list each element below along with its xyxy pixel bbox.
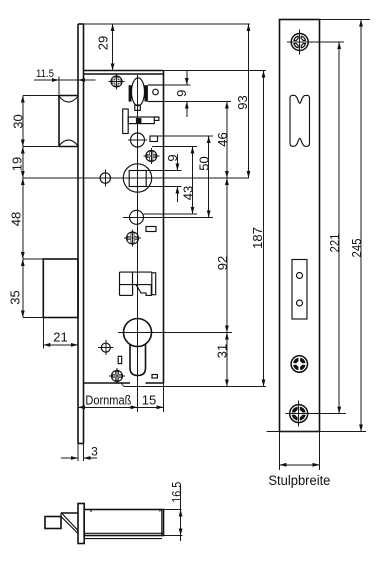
svg-text:48: 48 bbox=[9, 212, 24, 226]
svg-text:15: 15 bbox=[142, 393, 156, 408]
svg-text:50: 50 bbox=[197, 156, 212, 170]
svg-text:11.5: 11.5 bbox=[36, 68, 54, 80]
svg-text:Stulpbreite: Stulpbreite bbox=[268, 473, 330, 488]
svg-text:187: 187 bbox=[250, 227, 265, 249]
svg-text:92: 92 bbox=[215, 256, 230, 270]
svg-text:21: 21 bbox=[53, 330, 67, 345]
svg-text:29: 29 bbox=[96, 36, 111, 50]
svg-text:46: 46 bbox=[215, 132, 230, 146]
svg-text:43: 43 bbox=[180, 186, 195, 200]
svg-text:93: 93 bbox=[235, 95, 250, 109]
svg-text:30: 30 bbox=[10, 114, 25, 128]
svg-text:31: 31 bbox=[214, 344, 229, 358]
svg-text:3: 3 bbox=[91, 445, 98, 459]
svg-text:245: 245 bbox=[349, 239, 364, 258]
svg-text:9: 9 bbox=[165, 154, 180, 161]
svg-text:9: 9 bbox=[174, 90, 189, 97]
svg-text:35: 35 bbox=[8, 290, 23, 304]
svg-text:16.5: 16.5 bbox=[169, 482, 184, 503]
svg-text:221: 221 bbox=[327, 234, 342, 253]
svg-text:19: 19 bbox=[10, 157, 25, 171]
svg-text:Dornmaß: Dornmaß bbox=[85, 393, 131, 408]
